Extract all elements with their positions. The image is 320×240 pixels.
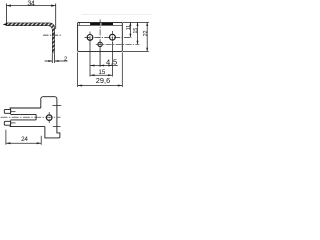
svg-text:11: 11 [126, 25, 132, 30]
dimension 4,5 dim line [90, 65, 118, 67]
angle bracket cross-section (hatched L profile) [7, 23, 55, 53]
bottom knob inner lip [10, 120, 12, 127]
centre line through vertical leg [43, 34, 62, 36]
svg-text:34: 34 [27, 0, 34, 7]
dimension 2 right extension line [54, 54, 56, 64]
lower centre tick at right edge [53, 125, 61, 127]
extension line middle hole down [99, 48, 101, 67]
extension line top edge to right dims [123, 21, 149, 23]
extension line bottom edge to right dims [123, 50, 149, 52]
section arrow at left tip of horizontal leg [3, 23, 8, 26]
bend line under top edge [78, 24, 123, 26]
bottom arm tip knob [4, 121, 10, 125]
extension line left hole down [89, 42, 91, 77]
svg-text:29,6: 29,6 [96, 76, 111, 85]
left hole vertical centre tick [89, 32, 91, 44]
top arm tip knob [4, 109, 10, 113]
extension line plate left down [77, 52, 79, 87]
dimension 2 left line and arrow [45, 60, 53, 62]
dimension 11 dim line [129, 22, 131, 37]
extension line left of 34 [5, 4, 7, 25]
holder hole vertical centre line [48, 112, 50, 124]
upper centre tick at right edge [52, 104, 61, 106]
extension line right of 34 [55, 4, 57, 30]
slot closed end [35, 114, 37, 120]
top fork arm slot edge [11, 113, 36, 115]
plate rectangle [78, 22, 123, 51]
middle hole [98, 42, 102, 46]
right hole vertical centre tick [111, 31, 113, 43]
dimension 15 bottom dim line [90, 74, 112, 76]
bottom fork arm bottom edge [10, 126, 45, 128]
band slit [100, 23, 101, 25]
bottom knob stub line [11, 122, 16, 124]
faint crease line [82, 13, 152, 15]
svg-text:15: 15 [133, 28, 139, 34]
holder hole [46, 115, 52, 121]
svg-text:24: 24 [21, 136, 28, 143]
upper left hole [87, 35, 93, 41]
slot centre line [1, 116, 61, 118]
dimension 24 left extension line [5, 130, 7, 145]
dimension 24 dim line [6, 142, 41, 144]
top knob inner lip [10, 108, 12, 114]
holder body outline with top tab and bottom foot [41, 97, 60, 138]
hatched band of folded flange [90, 23, 113, 25]
svg-text:22: 22 [143, 30, 149, 36]
dimension 34 right arrow [51, 5, 56, 7]
top knob stub line [11, 111, 16, 113]
svg-text:2: 2 [64, 57, 67, 63]
dimension 34 dim line [6, 5, 55, 7]
hole centre line horizontal (upper holes) [85, 36, 132, 38]
bottom fork arm slot edge [11, 119, 36, 121]
dimension 24 right extension line [40, 136, 42, 145]
dimension 22 dim line [146, 22, 148, 51]
dimension 29,6 dim line [78, 85, 123, 87]
dimension 2 left extension line [51, 54, 53, 64]
upper right hole [110, 34, 116, 40]
svg-text:4.5: 4.5 [106, 58, 118, 67]
middle hole centre line horizontal [96, 43, 140, 45]
extension line plate right down [121, 52, 123, 87]
inner corner line top-left [79, 22, 81, 25]
dimension 2 right line and arrow [55, 60, 68, 62]
dimension 34 left arrow [6, 5, 11, 7]
extension line right hole down [111, 42, 113, 77]
vertical centre line of plate / middle hole [99, 20, 101, 68]
top fork arm top edge [10, 107, 41, 109]
dimension 15 dim line (vertical) [137, 22, 139, 44]
